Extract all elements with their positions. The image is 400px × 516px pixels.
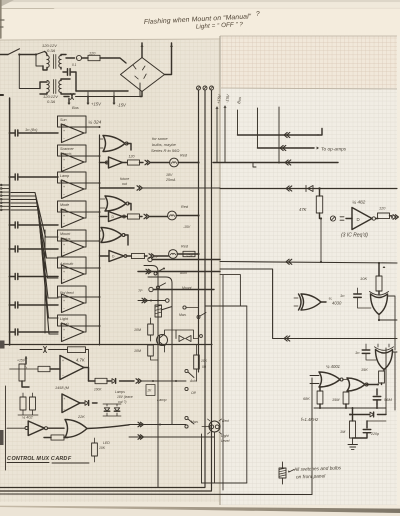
svg-text:bulbs, maybe: bulbs, maybe: [152, 142, 177, 147]
svg-text:47K: 47K: [299, 207, 307, 212]
svg-text:4030: 4030: [332, 301, 342, 306]
svg-text:Lamp: Lamp: [60, 174, 69, 178]
svg-text:To op-amps: To op-amps: [321, 147, 347, 153]
svg-text:−: −: [63, 307, 65, 311]
svg-text:56M: 56M: [384, 397, 392, 402]
svg-text:10M: 10M: [134, 328, 141, 332]
svg-text:100K: 100K: [94, 388, 102, 392]
svg-text:Mount: Mount: [60, 232, 71, 236]
svg-text:+15V: +15V: [91, 102, 102, 107]
svg-text:Bus: Bus: [72, 105, 79, 110]
svg-text:−: −: [63, 193, 65, 197]
svg-text:+: +: [63, 214, 65, 218]
svg-text:Sun: Sun: [60, 118, 67, 122]
svg-text:Mode: Mode: [60, 203, 69, 207]
svg-text:Red: Red: [181, 245, 189, 249]
svg-text:+: +: [63, 185, 65, 189]
svg-text:68K: 68K: [303, 397, 310, 401]
svg-text:10K: 10K: [360, 276, 367, 281]
svg-text:Light: Light: [221, 434, 230, 438]
svg-text:+: +: [63, 270, 65, 274]
svg-text:-15V: -15V: [183, 225, 191, 229]
svg-text:0.3A: 0.3A: [47, 48, 56, 53]
svg-text:4.7K: 4.7K: [76, 358, 85, 363]
svg-text:-15V: -15V: [117, 103, 127, 108]
svg-text:LED: LED: [103, 441, 110, 445]
svg-text:Auto: Auto: [189, 379, 197, 383]
svg-text:+: +: [63, 243, 65, 247]
svg-text:18V (leave: 18V (leave: [117, 395, 133, 399]
svg-text:−: −: [63, 166, 65, 170]
svg-text:Red: Red: [181, 205, 189, 209]
svg-text:1458 (M: 1458 (M: [55, 386, 70, 390]
svg-text:1n (8x): 1n (8x): [25, 127, 38, 132]
svg-text:+: +: [63, 299, 65, 303]
svg-text:10M: 10M: [134, 349, 141, 353]
svg-text:1n: 1n: [340, 293, 345, 298]
svg-text:TP: TP: [138, 289, 143, 293]
svg-text:Status: Status: [60, 237, 71, 241]
svg-text:0.1: 0.1: [72, 63, 77, 67]
svg-text:Level: Level: [221, 439, 230, 443]
svg-text:Man.: Man.: [179, 313, 187, 317]
svg-text:+: +: [63, 328, 65, 332]
svg-text:−: −: [63, 278, 65, 282]
svg-text:−: −: [63, 137, 65, 141]
svg-text:Lamps: Lamps: [115, 390, 125, 394]
svg-text:−: −: [64, 408, 66, 412]
svg-text:120: 120: [89, 52, 96, 56]
svg-text:0.3A: 0.3A: [47, 99, 56, 104]
svg-text:220p: 220p: [370, 432, 379, 436]
svg-text:?: ?: [256, 11, 260, 18]
svg-text:f≈1.4KHz: f≈1.4KHz: [301, 417, 319, 422]
svg-text:¼ 402: ¼ 402: [22, 416, 33, 420]
svg-text:+15V: +15V: [17, 359, 26, 363]
svg-text:Tr.: Tr.: [24, 366, 28, 370]
svg-text:-15V: -15V: [186, 254, 194, 258]
svg-text:TP: TP: [154, 255, 159, 259]
svg-text:Left: Left: [60, 208, 67, 212]
svg-text:on front panel: on front panel: [296, 473, 326, 480]
svg-text:−: −: [63, 336, 65, 340]
svg-text:D: D: [357, 217, 360, 222]
svg-text:+: +: [63, 158, 65, 162]
svg-text:Pol feed: Pol feed: [60, 291, 74, 295]
svg-text:(3 IC Reqʼd): (3 IC Reqʼd): [341, 233, 368, 239]
svg-text:Red: Red: [180, 154, 188, 158]
svg-text:¼ 482: ¼ 482: [352, 200, 366, 206]
svg-text:~: ~: [77, 57, 79, 61]
svg-text:1n: 1n: [355, 350, 360, 355]
svg-text:Ind.: Ind.: [60, 123, 66, 127]
svg-text:Auto: Auto: [179, 271, 187, 275]
svg-text:−: −: [63, 251, 65, 255]
svg-text:On: On: [60, 179, 65, 183]
svg-text:Lamp: Lamp: [157, 398, 167, 402]
svg-text:Series R to 56Ω: Series R to 56Ω: [151, 148, 179, 153]
svg-text:0N: 0N: [202, 365, 207, 369]
svg-text:C ONTROL M UX C ARD F: C ONTROL M UX C ARD F: [7, 456, 72, 462]
svg-text:Light: Light: [60, 317, 69, 321]
svg-text:¼ 324: ¼ 324: [88, 120, 102, 126]
svg-text:(Lea): (Lea): [60, 322, 69, 326]
svg-text:Azimuth: Azimuth: [59, 262, 73, 266]
svg-text:10K: 10K: [99, 446, 106, 450]
svg-text:out ?): out ?): [118, 400, 126, 404]
svg-text:¼ 4001: ¼ 4001: [326, 364, 340, 369]
svg-text:120: 120: [129, 155, 135, 159]
svg-text:10K: 10K: [201, 359, 208, 363]
svg-text:future: future: [120, 177, 129, 181]
svg-text:Man.: Man.: [191, 420, 199, 424]
svg-text:15K: 15K: [361, 368, 368, 372]
svg-text:Mount: Mount: [182, 286, 192, 290]
svg-text:−: −: [62, 374, 64, 378]
svg-text:+: +: [62, 359, 64, 363]
svg-text:15M: 15M: [332, 398, 340, 402]
svg-text:22K: 22K: [77, 415, 85, 419]
svg-text:for some: for some: [152, 136, 168, 141]
svg-text:18V: 18V: [166, 173, 173, 177]
svg-text:1M: 1M: [340, 430, 346, 434]
svg-text:−: −: [63, 222, 65, 226]
svg-text:Scanner: Scanner: [60, 147, 75, 151]
svg-text:+: +: [64, 397, 66, 401]
svg-text:Interch.: Interch.: [60, 152, 72, 156]
svg-text:Red: Red: [222, 419, 230, 423]
svg-text:120: 120: [379, 207, 386, 211]
svg-text:+: +: [63, 129, 65, 133]
svg-text:25mA: 25mA: [165, 178, 176, 182]
